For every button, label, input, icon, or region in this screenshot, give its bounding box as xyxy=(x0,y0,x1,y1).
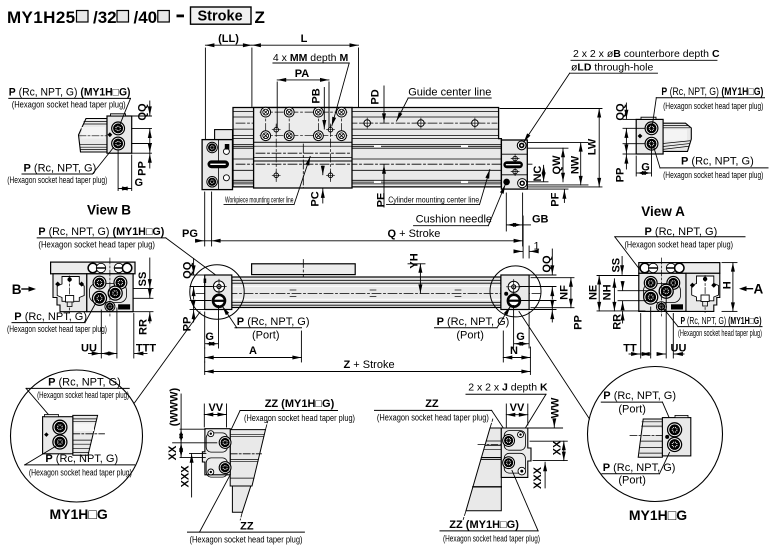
svg-text:(Port): (Port) xyxy=(252,330,280,342)
svg-text:(LL): (LL) xyxy=(218,33,239,45)
dim XX xyxy=(530,441,567,460)
svg-text:TTT: TTT xyxy=(136,342,156,354)
svg-text:PD: PD xyxy=(370,89,382,104)
svg-text:P (Rc, NPT, G) (MY1H□G): P (Rc, NPT, G) (MY1H□G) xyxy=(661,86,763,98)
tube stub xyxy=(663,123,691,151)
dim PA xyxy=(277,80,329,128)
svg-text:(Hexagon socket head taper plu: (Hexagon socket head taper plug) xyxy=(244,413,355,423)
svg-text:Q + Stroke: Q + Stroke xyxy=(388,228,441,240)
dim Z + Stroke xyxy=(205,347,531,375)
svg-text:P (Rc, NPT, G) (MY1H□G): P (Rc, NPT, G) (MY1H□G) xyxy=(38,226,164,238)
svg-text:1: 1 xyxy=(534,241,540,253)
svg-text:G: G xyxy=(516,331,525,343)
guide hole 2 xyxy=(416,118,426,128)
guide center line xyxy=(236,122,497,124)
bottom right port section view xyxy=(375,382,568,544)
tube body xyxy=(233,108,501,187)
dim WW xyxy=(553,419,555,427)
svg-text:P (Rc, NPT, G): P (Rc, NPT, G) xyxy=(48,377,121,389)
cross hole top xyxy=(511,155,519,163)
tube stub xyxy=(73,415,98,455)
svg-text:PE: PE xyxy=(376,193,388,208)
svg-text:(Hexagon socket head taper plu: (Hexagon socket head taper plug) xyxy=(7,175,107,185)
dim Q + Stroke xyxy=(212,240,523,242)
svg-text:/40: /40 xyxy=(134,8,158,27)
ports xyxy=(93,276,106,289)
svg-text:MY1H□G: MY1H□G xyxy=(50,506,108,522)
port block xyxy=(662,418,690,456)
svg-text:RR: RR xyxy=(612,314,624,330)
left cap xyxy=(205,275,232,310)
dim NW xyxy=(527,143,588,185)
slider plate xyxy=(252,264,356,275)
dim G xyxy=(118,150,132,191)
svg-text:Cushion needle: Cushion needle xyxy=(416,213,492,225)
svg-text:TT: TT xyxy=(623,343,637,355)
svg-text:NW: NW xyxy=(569,155,581,174)
block xyxy=(202,429,230,475)
slider plate xyxy=(639,263,720,274)
slider plate xyxy=(51,262,135,274)
svg-text:ZZ (MY1H□G): ZZ (MY1H□G) xyxy=(449,519,519,531)
dim SS xyxy=(133,258,153,289)
svg-text:GB: GB xyxy=(532,214,549,226)
lock screw xyxy=(518,179,527,188)
guide rail section xyxy=(53,274,87,312)
svg-text:(WWW): (WWW) xyxy=(168,387,180,426)
dim PP right xyxy=(520,301,556,323)
svg-text:PB: PB xyxy=(310,88,322,103)
port P bottom xyxy=(112,137,125,150)
title: model number MY1H25/32/40 - Stroke Z xyxy=(7,7,265,27)
dim G left xyxy=(205,306,219,349)
detail circle left xyxy=(190,265,244,319)
guide hole 3 xyxy=(470,118,480,128)
View B (top left port view) xyxy=(7,87,151,218)
upper section trapezoid xyxy=(230,430,265,486)
svg-text:(Hexagon socket head taper plu: (Hexagon socket head taper plug) xyxy=(678,328,762,338)
svg-text:(Hexagon socket head taper plu: (Hexagon socket head taper plug) xyxy=(663,101,763,111)
svg-text:G: G xyxy=(135,177,144,189)
svg-text:P (Rc, NPT, G): P (Rc, NPT, G) xyxy=(24,162,97,174)
svg-text:A: A xyxy=(249,345,257,357)
cylinder center line xyxy=(236,163,532,165)
svg-text:Z: Z xyxy=(255,8,265,27)
svg-text:XXX: XXX xyxy=(532,466,544,489)
svg-text:A: A xyxy=(754,282,764,297)
svg-text:(Hexagon socket head taper plu: (Hexagon socket head taper plug) xyxy=(38,240,155,250)
connector line to right detail xyxy=(519,312,590,420)
ports xyxy=(503,435,515,447)
block xyxy=(501,428,531,477)
svg-text:QW: QW xyxy=(551,155,563,175)
svg-text:(Port): (Port) xyxy=(456,330,484,342)
dim LW xyxy=(500,109,602,187)
dim 1 xyxy=(515,216,538,258)
dims NE NH xyxy=(597,276,648,311)
dim PF xyxy=(527,189,568,202)
dim PB xyxy=(323,88,325,130)
small holes xyxy=(272,126,280,134)
left end view (view from B) xyxy=(7,226,216,358)
guide rail section xyxy=(686,273,720,311)
dim XXX xyxy=(190,453,206,497)
svg-text:Stroke: Stroke xyxy=(198,9,243,25)
dim PP xyxy=(132,144,152,169)
svg-text:PF: PF xyxy=(550,192,562,206)
svg-text:PG: PG xyxy=(182,228,198,240)
dim WWW xyxy=(173,394,217,443)
svg-text:MY1H25: MY1H25 xyxy=(7,8,76,27)
section trapezoid xyxy=(466,428,501,511)
dim QQ xyxy=(623,103,645,143)
svg-text:PP: PP xyxy=(137,161,149,176)
dim PP xyxy=(623,144,645,169)
bracket screw 1 xyxy=(207,142,217,152)
svg-text:Workpiece mounting center line: Workpiece mounting center line xyxy=(225,195,294,204)
dim H xyxy=(722,263,737,312)
svg-text:XXX: XXX xyxy=(180,465,192,488)
svg-text:/32: /32 xyxy=(93,8,117,27)
svg-text:4 x MM depth M: 4 x MM depth M xyxy=(273,52,349,64)
svg-text:(Hexagon socket head taper plu: (Hexagon socket head taper plug) xyxy=(12,99,126,109)
svg-text:WW: WW xyxy=(549,397,561,418)
dim XX xyxy=(180,443,205,458)
svg-text:SS: SS xyxy=(610,258,622,273)
dim G xyxy=(636,147,651,176)
dim L xyxy=(252,45,359,107)
svg-text:QQ: QQ xyxy=(541,255,553,273)
detail circle MY1H-G right xyxy=(588,367,723,524)
port P top xyxy=(645,122,658,135)
right cap xyxy=(501,275,529,310)
port block xyxy=(87,274,133,312)
svg-text:PP: PP xyxy=(614,168,626,183)
svg-text:2 x 2 x J depth K: 2 x 2 x J depth K xyxy=(468,382,548,394)
svg-text:P (Rc, NPT, G): P (Rc, NPT, G) xyxy=(645,226,718,238)
svg-text:PA: PA xyxy=(295,68,310,80)
svg-text:Z + Stroke: Z + Stroke xyxy=(344,359,395,371)
svg-text:(Hexagon socket head taper plu: (Hexagon socket head taper plug) xyxy=(625,240,734,250)
dim PE xyxy=(383,165,385,207)
svg-text:(Port): (Port) xyxy=(618,474,646,486)
port block xyxy=(107,116,132,153)
cushion needle xyxy=(503,179,510,186)
svg-text:VV: VV xyxy=(208,402,223,414)
svg-text:ZZ: ZZ xyxy=(425,398,439,410)
svg-text:Cylinder mounting center line: Cylinder mounting center line xyxy=(388,195,479,204)
tube xyxy=(232,277,501,308)
tube stub xyxy=(79,119,108,153)
bottom left port section view xyxy=(167,387,355,544)
cross hole bottom xyxy=(511,168,519,176)
top view (plan) of cylinder xyxy=(182,33,720,258)
guide hole 1 xyxy=(362,118,372,128)
svg-text:QQ: QQ xyxy=(137,103,149,121)
dim NC xyxy=(527,165,548,182)
ports xyxy=(644,277,657,290)
detail circle right xyxy=(490,266,541,317)
svg-text:PP: PP xyxy=(572,315,584,330)
svg-text:RR: RR xyxy=(138,319,150,335)
bracket screw 2 xyxy=(207,177,217,187)
belt clamp black oval xyxy=(208,160,230,168)
svg-text:H: H xyxy=(722,281,734,289)
svg-text:P (Rc, NPT, G) (MY1H□G): P (Rc, NPT, G) (MY1H□G) xyxy=(681,316,762,327)
svg-text:QQ: QQ xyxy=(614,103,626,121)
dim PD xyxy=(383,86,385,122)
svg-text:P (Rc, NPT, G): P (Rc, NPT, G) xyxy=(603,390,676,402)
svg-text:P (Rc, NPT, G): P (Rc, NPT, G) xyxy=(14,311,87,323)
ports xyxy=(668,423,682,437)
svg-text:NH: NH xyxy=(602,284,614,300)
port block xyxy=(43,417,73,454)
slider plate xyxy=(254,108,352,189)
svg-text:(Port): (Port) xyxy=(618,404,646,416)
dim PG xyxy=(196,192,212,246)
svg-text:PC: PC xyxy=(310,191,322,206)
svg-text:YH: YH xyxy=(408,253,420,268)
svg-text:XX: XX xyxy=(551,440,563,455)
left bracket xyxy=(202,130,232,190)
dims TT UU xyxy=(629,297,684,358)
detail circle MY1H-G left xyxy=(11,370,143,522)
ports xyxy=(53,420,67,434)
dim PP left xyxy=(190,301,211,323)
dim QW xyxy=(527,148,568,182)
port block xyxy=(636,119,663,154)
svg-text:G: G xyxy=(205,331,214,343)
dim VV xyxy=(506,404,528,427)
View A (top right port view) xyxy=(614,86,768,219)
svg-text:NF: NF xyxy=(558,285,570,300)
svg-text:VV: VV xyxy=(510,402,525,414)
svg-text:(Hexagon socket head taper plu: (Hexagon socket head taper plug) xyxy=(443,534,540,544)
dim VV xyxy=(204,404,226,427)
svg-text:(Hexagon socket head taper plu: (Hexagon socket head taper plug) xyxy=(7,324,107,334)
port block xyxy=(639,273,686,311)
dims UU TTT xyxy=(89,308,148,358)
svg-text:Guide center line: Guide center line xyxy=(408,86,491,98)
svg-text:UU: UU xyxy=(671,343,687,355)
svg-text:UU: UU xyxy=(81,342,97,354)
svg-text:View B: View B xyxy=(87,203,131,218)
dim G right xyxy=(514,306,530,349)
dim QQ xyxy=(132,101,152,143)
svg-text:(Hexagon socket head taper plu: (Hexagon socket head taper plug) xyxy=(29,467,132,477)
dim PC xyxy=(322,166,324,175)
svg-text:(Hexagon socket head taper plu: (Hexagon socket head taper plug) xyxy=(663,170,763,180)
svg-text:G: G xyxy=(641,162,650,174)
lower section trapezoid xyxy=(232,486,250,512)
dim NF xyxy=(531,278,574,308)
dim QQ right xyxy=(520,249,556,299)
pin xyxy=(638,134,643,139)
dim (LL) xyxy=(205,45,252,139)
svg-text:(Hexagon socket head taper plu: (Hexagon socket head taper plug) xyxy=(190,534,303,544)
port P top xyxy=(112,122,125,135)
svg-text:SS: SS xyxy=(137,272,149,287)
svg-text:XX: XX xyxy=(167,445,179,460)
dim YH xyxy=(408,263,425,265)
plate screws MM xyxy=(261,107,271,117)
svg-text:P (Rc, NPT, G) (MY1H□G): P (Rc, NPT, G) (MY1H□G) xyxy=(9,87,131,99)
ports xyxy=(219,437,231,449)
connector line to left detail xyxy=(134,312,200,404)
dim QQ left xyxy=(190,259,212,300)
svg-text:P (Rc, NPT, G): P (Rc, NPT, G) xyxy=(45,453,118,465)
port P bottom xyxy=(645,137,658,150)
side view (elevation) xyxy=(181,249,584,375)
dim N xyxy=(503,331,530,362)
svg-text:QQ: QQ xyxy=(181,261,193,279)
svg-text:P (Rc, NPT, G): P (Rc, NPT, G) xyxy=(237,316,310,328)
svg-text:View A: View A xyxy=(641,204,685,219)
svg-text:P (Rc, NPT, G): P (Rc, NPT, G) xyxy=(681,155,754,167)
dim RR xyxy=(133,289,153,323)
svg-text:(Hexagon socket head taper plu: (Hexagon socket head taper plug) xyxy=(377,413,489,423)
svg-text:ZZ (MY1H□G): ZZ (MY1H□G) xyxy=(265,398,335,410)
A arrow xyxy=(745,288,753,290)
dim GB xyxy=(506,193,530,246)
svg-text:(Hexagon socket head taper plu: (Hexagon socket head taper plug) xyxy=(37,390,129,400)
svg-text:B: B xyxy=(12,282,22,297)
svg-text:øLD through-hole: øLD through-hole xyxy=(571,61,653,73)
svg-text:ZZ: ZZ xyxy=(240,521,254,533)
svg-text:NC: NC xyxy=(532,166,544,182)
right end cap xyxy=(501,140,527,189)
dim XXX xyxy=(544,462,546,488)
svg-text:2 x 2 x øB counterbore depth C: 2 x 2 x øB counterbore depth C xyxy=(573,48,720,60)
tube rail lines xyxy=(233,112,501,184)
oval slot xyxy=(503,161,523,168)
tube stub xyxy=(638,419,662,457)
pin xyxy=(107,132,112,137)
svg-text:MY1H□G: MY1H□G xyxy=(629,507,687,523)
dim SS right xyxy=(621,257,623,275)
right end view (view from A) xyxy=(587,226,763,358)
svg-text:LW: LW xyxy=(587,138,599,155)
dim RR right xyxy=(622,312,624,324)
dim A xyxy=(205,331,302,362)
svg-text:NE: NE xyxy=(587,285,599,300)
svg-text:L: L xyxy=(301,33,308,45)
counterbore hole xyxy=(517,141,526,150)
